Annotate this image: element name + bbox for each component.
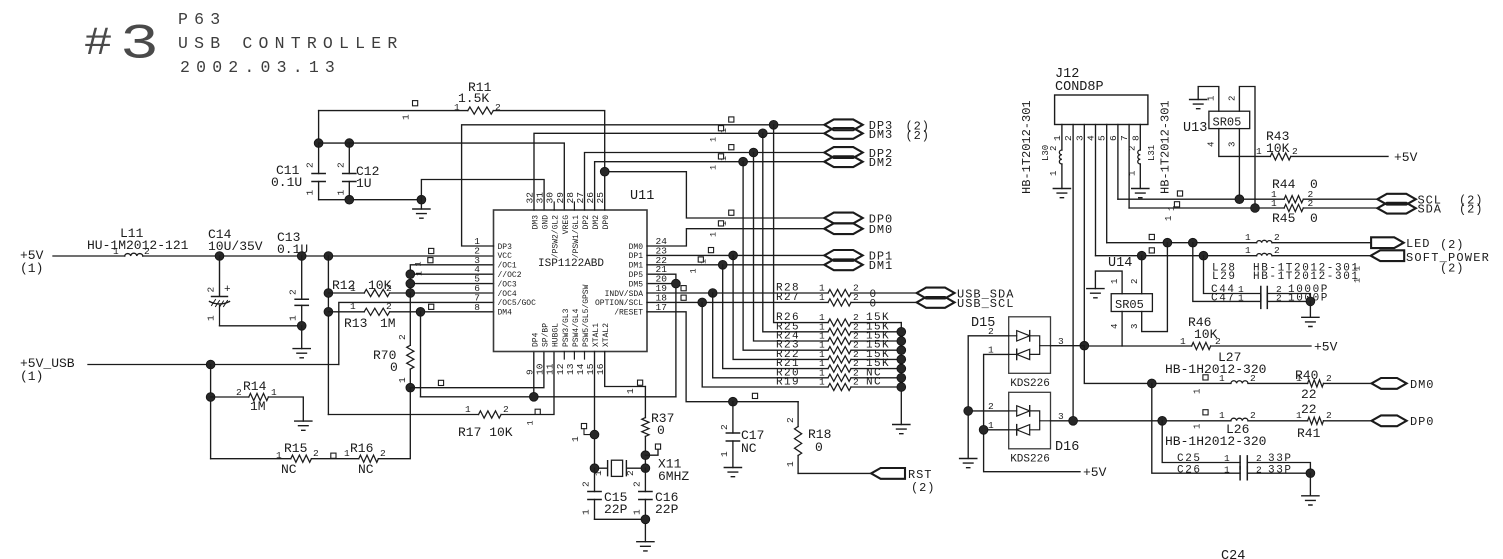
svg-text:1: 1 [581,509,592,515]
square marker DP0 arrow [729,210,734,215]
svg-text:2: 2 [785,417,796,423]
stub X11 marker [645,449,658,455]
svg-text:(2): (2) [1459,203,1483,217]
svg-text:(1): (1) [20,369,43,384]
wire XTAL1 vertical [594,352,596,469]
svg-text:2: 2 [1256,465,1262,476]
wire +5V_USB row [88,364,339,366]
wire D15 D16 pin1 +5V [984,354,1080,471]
capacitor C25 33P [1162,421,1240,463]
junction OC bus a [406,270,415,279]
ground under C44 C47 [1309,301,1311,317]
svg-text://OC2: //OC2 [498,271,522,280]
svg-text:1: 1 [1245,245,1251,256]
svg-text:PSW3/GL3: PSW3/GL3 [562,308,571,347]
inductor L30 [1061,125,1063,151]
svg-text:R16: R16 [350,441,373,456]
resistor R26 15K [774,125,902,323]
inductor L11 [125,253,143,256]
svg-text:R27: R27 [776,292,800,304]
wire U13 pin4 to R43 [1219,129,1271,157]
square marker XTAL1 [581,424,586,429]
wire U13 pin3 to SCL [1238,129,1240,200]
svg-text:DM5: DM5 [629,280,644,289]
svg-text:1: 1 [401,114,412,120]
port DM0 [824,223,862,234]
wire VCC row to U11 pin 2 [143,255,494,257]
wire SOFT_POWER row [1096,255,1371,257]
wire XTAL2 to R37 [605,352,646,387]
svg-text:1: 1 [1049,171,1059,176]
svg-text:HB-1H2012-320: HB-1H2012-320 [1165,434,1266,449]
svg-text:DP0: DP0 [1410,415,1434,429]
wire DM0 net top [647,229,824,246]
junction R23 common [897,346,906,355]
svg-text:2: 2 [581,481,592,487]
wire DM3 net [534,133,824,210]
svg-text:DM2: DM2 [869,156,893,170]
junction D16 pin1 [979,425,988,434]
svg-text:2: 2 [1250,410,1256,421]
svg-text:2: 2 [719,424,730,430]
square marker DM1 [698,257,703,262]
svg-text:DP4: DP4 [532,332,541,347]
wire caps to ground [595,519,646,541]
svg-text:2: 2 [631,481,642,487]
svg-text:1: 1 [1256,146,1262,157]
square marker SCL [681,295,686,300]
diode D15 KDS226 [1009,317,1051,374]
svg-text:C25: C25 [1177,453,1202,465]
inductor L26 [1231,418,1248,421]
square marker DP2 arrow [729,145,734,150]
svg-text:1: 1 [709,137,719,142]
svg-text:2: 2 [1256,453,1262,464]
resistor R22 15K [733,255,901,359]
port DP0 right [1372,415,1407,426]
wire R70 to pin10 SP/BP [410,352,544,388]
svg-text:0: 0 [390,360,398,375]
svg-text:22P: 22P [604,502,628,517]
svg-text:4: 4 [1110,324,1120,329]
svg-text:XTAL1: XTAL1 [592,323,601,347]
svg-text:R14: R14 [243,379,267,394]
square marker pin3 [428,258,433,263]
ground under R14 [295,421,312,430]
svg-text:1: 1 [1219,410,1225,421]
svg-text:1: 1 [819,292,825,303]
svg-text:22: 22 [1301,387,1317,402]
svg-text:0.1U: 0.1U [277,242,308,257]
svg-text:/PSW2/GL2: /PSW2/GL2 [552,215,561,258]
junction +5V_USB [206,360,215,369]
resistor R40 22 [1308,380,1324,387]
svg-text:GND: GND [542,215,551,230]
wire +5V to L11 [53,255,125,257]
svg-text:2: 2 [335,162,346,168]
svg-text:R41: R41 [1297,426,1321,441]
svg-text:1: 1 [1245,232,1251,243]
junction DP3 pulldown [769,120,778,129]
resistor R20 NC [713,293,902,378]
wire J12 pin5 to LED [1106,125,1108,243]
port USB_SDA [917,288,955,299]
square marker DM2 arrow [718,154,723,159]
svg-text:L29: L29 [1212,271,1237,283]
svg-text:3: 3 [120,17,159,73]
wire U14 pin4 [1121,312,1123,347]
junction R25 common [897,327,906,336]
svg-text:/PSW1/GL1: /PSW1/GL1 [572,215,581,258]
svg-text:NC: NC [866,377,882,389]
svg-text:DM0: DM0 [1410,378,1434,392]
svg-text:2: 2 [1292,146,1298,157]
junction XTAL1 [590,430,599,439]
svg-text:1: 1 [1296,373,1302,384]
svg-text:1U: 1U [356,176,372,191]
capacitor C44 1000P [1204,256,1261,294]
svg-text:COND8P: COND8P [1055,80,1104,95]
ground under C13 [301,326,303,349]
square marker R37 pin1 [638,380,643,385]
svg-text:SR05: SR05 [1213,116,1242,130]
wire D15 pin3 [1051,345,1085,347]
svg-text:VCC: VCC [498,252,513,261]
svg-text:3: 3 [1228,142,1238,147]
wire GND to pin31 [421,180,544,211]
svg-text:#: # [84,22,112,67]
wire LED row [1107,242,1371,244]
svg-text:1: 1 [631,509,642,515]
wire DP4 row [421,352,676,397]
svg-text:ISP1122ABD: ISP1122ABD [538,258,604,270]
svg-text:1: 1 [344,448,350,459]
title sheet number #3 [84,22,112,67]
wire DM2 net [595,162,825,210]
junction R19 common [897,383,906,392]
svg-text:1: 1 [397,377,408,383]
junction SCL R19 [698,298,707,307]
wire DM1 net [647,264,824,266]
junction X11 pin2 [641,464,650,473]
inductor L31 [1139,125,1141,151]
junction R20 common [897,373,906,382]
svg-text:1: 1 [1224,465,1230,476]
svg-text:NC: NC [281,462,297,477]
wire DP2 net [585,153,825,211]
wire /RESET net [647,312,798,402]
svg-text:U14: U14 [1108,256,1132,271]
svg-text:INDV/SDA: INDV/SDA [605,290,644,299]
svg-text:USB CONTROLLER: USB CONTROLLER [178,34,403,53]
wire /OC5/GOC link [339,302,494,364]
svg-text:HB-1T2012-301: HB-1T2012-301 [1020,100,1034,194]
junction C12 top [345,139,354,148]
square marker L27 [1203,375,1208,380]
junction DP1 pulldown [729,251,738,260]
square marker DM3 arrow [718,126,723,131]
square marker R11 [413,101,418,106]
svg-text:HB-1H2012-320: HB-1H2012-320 [1165,362,1266,377]
svg-text:DM0: DM0 [869,223,893,237]
junction R13 pin1 [324,307,333,316]
svg-text:2: 2 [853,377,859,388]
svg-text:1: 1 [819,377,825,388]
svg-text:HU-1M2012-121: HU-1M2012-121 [87,238,189,253]
svg-text:+: + [224,284,231,296]
svg-text:2: 2 [1308,198,1314,209]
svg-text:DM3: DM3 [532,215,541,230]
svg-text:U13: U13 [1183,121,1207,136]
ground at U14 [1087,289,1104,298]
svg-text:C47: C47 [1211,293,1236,305]
svg-text:SP/BP: SP/BP [542,323,551,347]
svg-text:KDS226: KDS226 [1010,378,1050,390]
svg-text:P63: P63 [178,10,226,29]
junction DP0 C25 [1158,416,1167,425]
junction +5V vertical [324,252,333,261]
svg-text:+5V: +5V [1083,465,1107,480]
wire U14 pin1 ground [1095,271,1122,294]
svg-text:DP3: DP3 [498,243,513,252]
svg-text:2: 2 [386,283,392,294]
svg-text:2: 2 [1274,232,1280,243]
svg-text:2: 2 [380,448,386,459]
junction C25 C26 ground [1306,469,1315,478]
svg-text:2: 2 [206,287,217,293]
ground under L31 [1132,189,1149,198]
svg-text:0.1U: 0.1U [271,175,302,190]
svg-text:1: 1 [271,387,277,398]
svg-text:DM0: DM0 [629,243,644,252]
svg-text:0: 0 [870,299,877,311]
wire +5V_USB down [210,365,212,459]
ground above U13 [1190,100,1207,109]
svg-text:DM2: DM2 [592,215,601,230]
square marker between R15 R16 [331,453,336,458]
wire U13 pin1 to ground [1198,87,1219,112]
junction U13 SDA [1251,204,1260,213]
svg-text:L31: L31 [1147,145,1157,161]
svg-text:1: 1 [1296,410,1302,421]
junction R24 common [897,337,906,346]
svg-text:C26: C26 [1177,465,1202,477]
svg-text:R15: R15 [284,441,307,456]
square marker VCC [429,248,434,253]
resistor R24 15K [754,153,902,342]
svg-text:6MHZ: 6MHZ [658,469,689,484]
svg-text:8: 8 [474,302,480,313]
svg-text:XTAL2: XTAL2 [602,323,611,347]
svg-text:1: 1 [305,190,316,196]
wire DP5/DM5 vertical [647,274,676,397]
svg-text:1: 1 [1164,216,1174,221]
svg-text:33P: 33P [1268,465,1293,477]
svg-text:2: 2 [288,289,299,295]
svg-text:1: 1 [113,246,119,257]
port LED [1371,237,1404,248]
svg-text:DM1: DM1 [869,259,893,273]
junction DM3 pulldown [758,129,767,138]
svg-text:1: 1 [719,451,730,457]
wire U14 pin2 [1141,256,1143,294]
svg-text:(1): (1) [20,261,43,276]
junction R22 common [897,355,906,364]
resistor R41 22 [1308,417,1324,424]
square marker SP row [1149,248,1154,253]
junction C44 C47 ground [1306,297,1315,306]
square marker R13 [429,304,434,309]
svg-text:22P: 22P [655,502,679,517]
ground under L30 [1053,189,1070,198]
resistor R25 15K [763,133,902,331]
junction SP U14pin2 [1137,251,1146,260]
svg-text:2002.03.13: 2002.03.13 [180,58,341,77]
junction R12 pin1 [324,289,333,298]
square marker SP/BP [438,380,443,385]
svg-text:DM3: DM3 [869,128,893,142]
svg-text:2: 2 [313,448,319,459]
inductor L29 [1257,253,1272,255]
svg-text:/OC4: /OC4 [498,290,517,299]
junction C17 top [729,397,738,406]
wire DM4 down [420,312,422,397]
svg-text:1: 1 [525,420,535,425]
svg-text:1: 1 [1224,453,1230,464]
svg-text:R17 10K: R17 10K [458,425,513,440]
svg-text:VREG: VREG [562,215,571,234]
junction R37 bottom [641,451,650,460]
junction DM0 C26 [1147,379,1156,388]
svg-text:R19: R19 [776,377,800,389]
svg-text:HB-1T2012-301: HB-1T2012-301 [1159,100,1173,194]
wire VREG row [319,143,565,210]
svg-text:1: 1 [288,315,299,321]
svg-text:4: 4 [1207,142,1217,147]
svg-text:PSW5/GL5/GPSW: PSW5/GL5/GPSW [582,284,591,347]
svg-text:DM4: DM4 [498,309,513,318]
svg-text:DM1: DM1 [629,262,644,271]
svg-text:1: 1 [350,283,356,294]
svg-text:1: 1 [625,388,636,394]
square marker R17 pin2 [535,409,540,414]
ground 15K bank [893,425,910,434]
junction LED U14pin3 [1163,238,1172,247]
svg-text:NC: NC [741,441,757,456]
svg-text:2: 2 [1326,373,1332,384]
svg-text:OPTION/SCL: OPTION/SCL [595,299,643,308]
svg-text:1: 1 [785,461,796,467]
wire J12 pin7 to SDA [1128,125,1130,209]
wire DP0 row right [1051,420,1372,422]
svg-text:RST: RST [908,468,932,482]
U11 unconnected pin stubs [554,202,584,359]
svg-text:2: 2 [305,162,316,168]
svg-text:1: 1 [1180,336,1186,347]
resistor R23 15K [743,162,901,351]
port SCL [1377,194,1415,205]
svg-text:/OC5/GOC: /OC5/GOC [498,299,537,308]
op-amp U11 ISP1122ABD body [494,210,648,352]
resistor R19 NC [702,302,901,387]
junction C13 bottom [297,321,306,330]
svg-text:1: 1 [206,315,217,321]
inductor L27 [1231,381,1248,384]
port SDA [1377,203,1415,214]
svg-text:C24: C24 [1221,549,1245,559]
port DM2 [824,156,862,167]
junction D16 pin2 [964,407,973,416]
svg-text:1: 1 [1238,293,1244,304]
svg-text:U11: U11 [630,189,654,204]
square marker DM0 arrow [718,221,723,226]
svg-text:2: 2 [1276,293,1282,304]
wire R18 to RST [798,472,871,474]
svg-text:/OC3: /OC3 [498,280,517,289]
svg-text:1: 1 [1271,198,1277,209]
port SOFT_POWER [1371,250,1405,261]
svg-text:1M: 1M [250,399,266,414]
svg-text:2: 2 [1215,336,1221,347]
wire /OC1-/OC4 bus [410,265,493,293]
svg-text:2: 2 [495,102,501,113]
port DP2 [824,147,862,158]
svg-text:2: 2 [503,404,509,415]
junction R21 common [897,364,906,373]
svg-text:10U/35V: 10U/35V [208,239,263,254]
ground D15 D16 [960,459,977,468]
svg-text:(2): (2) [911,481,935,495]
svg-text:2: 2 [1274,245,1280,256]
wire caps bottom row [319,199,422,201]
junction C14 top [215,252,224,261]
svg-text:(2): (2) [906,129,930,143]
wire J12 pin6 to SCL [1117,125,1119,200]
svg-text:1: 1 [335,190,346,196]
inductor L28 [1257,240,1272,242]
wire 15K bank common [900,323,902,425]
wire DP1 net [647,254,824,256]
svg-text:1: 1 [414,261,424,266]
svg-text:+5V: +5V [1314,340,1338,355]
diode D16 KDS226 [1009,392,1051,449]
ground under C25 C26 [1309,473,1311,496]
svg-text:USB_SCL: USB_SCL [957,297,1014,311]
svg-text:0: 0 [815,440,823,455]
junction DM2 pulldown [739,157,748,166]
junction SP C44 [1199,251,1208,260]
svg-text:1: 1 [465,404,471,415]
junction DP0 J12pin2 [1069,416,1078,425]
svg-text:2: 2 [236,387,242,398]
junction LED C47 [1188,238,1197,247]
junction J12pin3 node [1080,341,1089,350]
wire J12 pin2 to DP0 [1072,125,1074,421]
svg-text:0: 0 [1310,211,1318,226]
svg-text:DP2: DP2 [582,215,591,230]
svg-text:HUBGL: HUBGL [552,323,561,347]
wire U13 pin2 to SDA [1239,87,1255,209]
svg-text:DP0: DP0 [602,215,611,230]
junction C12 bottom [345,195,354,204]
junction R11 DP0 [600,167,609,176]
svg-text:HB-1T2012-301: HB-1T2012-301 [1253,271,1360,283]
ground under crystal caps [637,542,654,551]
port DP0 [824,213,862,224]
wire C11 top vertical [318,111,320,144]
svg-text:1: 1 [709,165,719,170]
wire +5V vertical [327,256,329,415]
